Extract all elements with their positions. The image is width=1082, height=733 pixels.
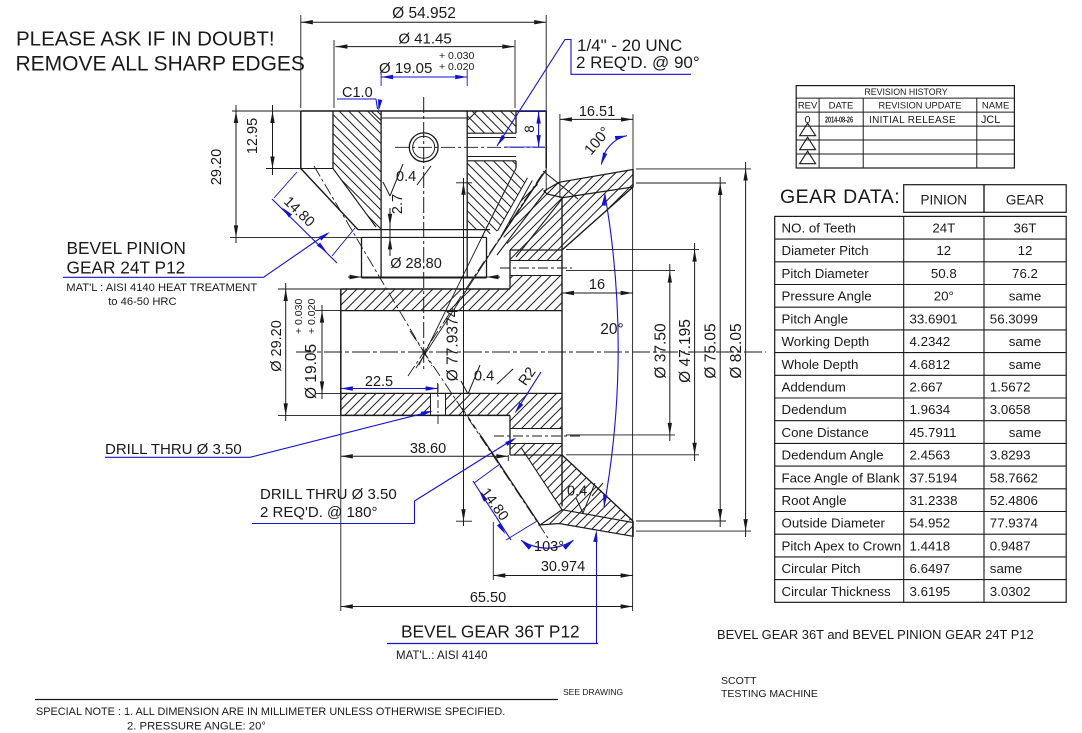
- dim 30.974 ext left: [492, 522, 494, 580]
- svg-text:76.2: 76.2: [1012, 266, 1038, 281]
- gear boss left face upper: [509, 250, 511, 289]
- svg-text:Ø 47.195: Ø 47.195: [677, 319, 694, 383]
- pinion outer edge left (OD 54.952): [300, 111, 302, 169]
- gear boss bottom face: [510, 454, 562, 456]
- svg-text:52.4806: 52.4806: [990, 493, 1038, 508]
- dim 14.80 pinion line blue: [272, 199, 337, 263]
- pinion outer edge right: [545, 111, 547, 168]
- svg-text:Cone Distance: Cone Distance: [782, 425, 869, 440]
- svg-text:20°: 20°: [600, 321, 623, 338]
- gear hub bottom wall hatch left: [341, 393, 431, 415]
- revision history table: [796, 86, 1014, 168]
- dim 38.60 ext right: [507, 455, 509, 461]
- svg-text:INITIAL RELEASE: INITIAL RELEASE: [869, 115, 956, 126]
- svg-text:Face Angle of Blank: Face Angle of Blank: [782, 470, 901, 485]
- svg-text:GEAR: GEAR: [1006, 193, 1045, 208]
- svg-text:REVISION HISTORY: REVISION HISTORY: [864, 87, 947, 97]
- gear bore wall bottom: [341, 392, 562, 394]
- dim right ext shared: [632, 186, 634, 611]
- pinion boss bottom line: [362, 277, 487, 279]
- svg-text:33.6901: 33.6901: [910, 311, 958, 326]
- dim 82.05 ext bottom: [636, 530, 751, 532]
- svg-text:1.5672: 1.5672: [990, 380, 1031, 395]
- gear back face upper: [632, 170, 634, 188]
- svg-text:TESTING MACHINE: TESTING MACHINE: [721, 688, 818, 700]
- svg-text:Dedendum: Dedendum: [782, 402, 847, 417]
- gear hub top wall hatch: [341, 289, 510, 311]
- svg-text:Ø 29.20: Ø 29.20: [269, 320, 285, 372]
- drill note 1 leader blue: [250, 412, 430, 458]
- svg-text:Ø 37.50: Ø 37.50: [653, 323, 670, 379]
- dim 12.95 line: [272, 105, 274, 175]
- svg-text:Pitch Diameter: Pitch Diameter: [782, 266, 870, 281]
- gear boss hatch lower below hole: [510, 444, 562, 456]
- svg-text:same: same: [1009, 334, 1042, 349]
- svg-text:2.7: 2.7: [390, 194, 406, 214]
- pinion cross hole circle outer: [409, 133, 438, 162]
- svg-text:same: same: [1009, 357, 1042, 372]
- svg-text:SEE DRAWING: SEE DRAWING: [563, 687, 623, 697]
- gear bolt hole lower line2: [510, 443, 562, 445]
- gear radial hole centerline: [437, 384, 439, 425]
- pinion bottom extension line: [230, 236, 362, 238]
- dim 12.95 ext: [266, 168, 301, 170]
- label BEVEL PINION leader blue: [264, 234, 328, 278]
- svg-text:0.9487: 0.9487: [990, 538, 1031, 553]
- svg-text:Circular Pitch: Circular Pitch: [782, 561, 861, 576]
- gear boss hatch lower above hole: [510, 393, 562, 428]
- gear tooth root line lower: [521, 448, 562, 510]
- dim 19.05 line blue: [381, 76, 467, 78]
- svg-text:DATE: DATE: [829, 101, 854, 112]
- gear tooth band upper outline: [544, 170, 633, 198]
- svg-text:Dedendum Angle: Dedendum Angle: [782, 448, 884, 463]
- gear tooth band hatch lower: [540, 510, 633, 537]
- svg-text:12: 12: [936, 243, 951, 258]
- svg-text:JCL: JCL: [981, 114, 1000, 126]
- dim 29.20 gear ext top: [278, 288, 341, 290]
- gear bolt hole upper line1: [510, 260, 562, 262]
- gear tooth band lower outline: [540, 510, 633, 537]
- svg-text:3.6195: 3.6195: [910, 584, 951, 599]
- thread note leader blue: [497, 40, 691, 147]
- svg-text:BEVEL GEAR 36T P12: BEVEL GEAR 36T P12: [401, 622, 580, 642]
- svg-text:56.3099: 56.3099: [990, 311, 1038, 326]
- gear bolt hole upper centerline: [500, 267, 572, 269]
- svg-text:2. PRESSURE ANGLE: 20°: 2. PRESSURE ANGLE: 20°: [127, 721, 266, 733]
- gear tooth root line upper: [516, 198, 563, 257]
- pinion boss right wall: [486, 237, 488, 277]
- pinion boss left wall: [361, 237, 363, 277]
- gear hub bottom wall hatch mid: [446, 393, 511, 415]
- mesh pitch line (dash-dot): [408, 173, 543, 376]
- dim 47.195 ext bottom: [566, 454, 699, 456]
- dim 19.05 ext left blue: [380, 70, 382, 86]
- dim 14.80 gear ext1: [474, 464, 500, 483]
- svg-text:REV: REV: [798, 101, 818, 112]
- svg-text:54.952: 54.952: [910, 516, 951, 531]
- pinion bottom face: [358, 229, 490, 231]
- dim 19.05 gear line: [321, 305, 323, 399]
- dim 41.45 ext left: [333, 40, 335, 108]
- svg-text:Ø 41.45: Ø 41.45: [398, 31, 451, 48]
- svg-text:NO. of Teeth: NO. of Teeth: [782, 221, 856, 236]
- svg-text:+ 0.030: + 0.030: [293, 299, 305, 334]
- dim 77.9374 line: [463, 178, 465, 526]
- svg-text:Diameter Pitch: Diameter Pitch: [782, 243, 869, 258]
- gear centerline (horizontal axis): [296, 351, 766, 353]
- svg-text:0.4: 0.4: [567, 484, 587, 500]
- gear tooth tip line lower: [481, 436, 540, 525]
- svg-text:3.8293: 3.8293: [990, 448, 1031, 463]
- svg-text:4.2342: 4.2342: [910, 334, 951, 349]
- pinion tooth tip continuation: [416, 240, 499, 368]
- dim 65.50 line: [341, 606, 633, 608]
- gear mesh hatch below boss: [526, 455, 562, 510]
- svg-text:0.4: 0.4: [396, 169, 416, 185]
- dim 16.51 line: [560, 118, 633, 120]
- svg-text:37.5194: 37.5194: [910, 470, 958, 485]
- dim 37.50 line: [669, 264, 671, 441]
- svg-text:50.8: 50.8: [931, 266, 957, 281]
- pinion tooth pitch line left (dash-dot): [314, 166, 432, 366]
- svg-text:24T: 24T: [932, 221, 955, 236]
- gear back face lower: [632, 521, 634, 536]
- pinion hub edge left (OD 41.45): [332, 111, 334, 169]
- dim 37.50 ext top: [566, 270, 675, 272]
- pinion mesh hatched wedge: [482, 168, 528, 237]
- svg-text:SCOTT: SCOTT: [721, 675, 757, 687]
- dim 29.20 gear line: [285, 283, 287, 421]
- svg-text:Pressure Angle: Pressure Angle: [782, 289, 872, 304]
- gear tooth band hatch upper: [544, 170, 633, 198]
- label BEVEL PINION underline blue: [63, 276, 264, 278]
- svg-text:8: 8: [522, 125, 537, 133]
- svg-text:1.9634: 1.9634: [910, 402, 951, 417]
- svg-text:2.667: 2.667: [910, 380, 943, 395]
- gear bolt hole lower centerline: [494, 435, 580, 437]
- svg-text:4.6812: 4.6812: [910, 357, 951, 372]
- dim 75.05 ext bottom: [636, 520, 726, 522]
- pinion hub hatched section left: [333, 111, 381, 230]
- gear boss hatch below hole: [510, 276, 562, 311]
- tapped hole minor line top: [467, 137, 516, 139]
- svg-text:REMOVE ALL SHARP EDGES: REMOVE ALL SHARP EDGES: [16, 53, 305, 76]
- dim 29.20 line: [235, 105, 237, 243]
- svg-text:2 REQ'D. @ 90°: 2 REQ'D. @ 90°: [576, 53, 700, 72]
- chamfer leader blue: [376, 99, 378, 109]
- pinion top face extension line: [232, 110, 301, 112]
- gear boss top face: [510, 249, 562, 251]
- svg-text:30.974: 30.974: [541, 559, 585, 575]
- pinion hub hatched section right upper: [467, 111, 516, 133]
- svg-text:Whole Depth: Whole Depth: [782, 357, 859, 372]
- svg-text:Addendum: Addendum: [782, 380, 846, 395]
- svg-text:6.6497: 6.6497: [910, 561, 951, 576]
- dim 54.952 line: [301, 21, 546, 23]
- tapped hole centerline (horizontal): [395, 146, 545, 148]
- tapped hole major line bottom: [467, 160, 516, 162]
- dim 30.974 line: [493, 575, 632, 577]
- svg-text:to 46-50 HRC: to 46-50 HRC: [108, 296, 176, 308]
- pinion hub edge right upper: [515, 111, 517, 133]
- surface finish 0.4 pinion bore mark: [383, 182, 390, 196]
- svg-text:3.0658: 3.0658: [990, 402, 1031, 417]
- drill note 2 leader blue: [415, 439, 515, 501]
- svg-text:Ø 77.9374: Ø 77.9374: [445, 308, 462, 381]
- dim 8 line blue: [538, 112, 540, 148]
- mesh flank line 2: [502, 181, 532, 235]
- pinion bore chamfer left C1.0: [371, 111, 381, 121]
- svg-text:DRILL THRU Ø 3.50: DRILL THRU Ø 3.50: [105, 441, 242, 458]
- gear radial hole wall right: [445, 393, 447, 415]
- gear back cone lower: [562, 455, 633, 521]
- svg-text:same: same: [1009, 425, 1042, 440]
- svg-text:20°: 20°: [934, 289, 954, 304]
- svg-text:Pitch Angle: Pitch Angle: [782, 311, 849, 326]
- svg-text:58.7662: 58.7662: [990, 470, 1038, 485]
- svg-text:16.51: 16.51: [579, 104, 615, 120]
- svg-text:12: 12: [1018, 243, 1033, 258]
- svg-text:36T: 36T: [1014, 221, 1037, 236]
- pinion cross hole circle inner (thread): [413, 136, 435, 158]
- svg-text:16: 16: [589, 277, 605, 293]
- pinion back cone edge right: [543, 171, 578, 199]
- svg-text:45.7911: 45.7911: [910, 425, 957, 440]
- dim 37.50 ext bottom: [566, 434, 675, 436]
- svg-text:Outside Diameter: Outside Diameter: [782, 516, 886, 531]
- gear tooth tip line upper: [497, 191, 546, 256]
- svg-text:MAT'L.: AISI 4140: MAT'L.: AISI 4140: [396, 650, 487, 662]
- dim 2.7 line: [389, 208, 391, 256]
- dim 47.195 line: [694, 243, 696, 461]
- dim 38.60 ext left: [340, 415, 342, 461]
- dim 28.80 line: [348, 276, 500, 278]
- mesh flank line 1: [498, 178, 528, 231]
- pinion bore wall left: [380, 111, 382, 278]
- svg-text:Ø 75.05: Ø 75.05: [703, 323, 720, 378]
- svg-text:2.4563: 2.4563: [910, 448, 951, 463]
- svg-text:12.95: 12.95: [245, 118, 261, 154]
- svg-text:+ 0.020: + 0.020: [306, 299, 318, 334]
- surface finish 0.4 gear tooth mark: [576, 498, 583, 513]
- pinion boss top line: [362, 236, 487, 238]
- svg-text:1.4418: 1.4418: [910, 538, 951, 553]
- chamfer note underline blue: [337, 98, 376, 100]
- drill note 2 shelf blue: [252, 523, 415, 525]
- drill note 1 shelf blue: [105, 456, 250, 458]
- gear bottom pitch line (dash-dot): [410, 331, 548, 538]
- svg-text:GEAR DATA:: GEAR DATA:: [780, 186, 900, 208]
- svg-text:2 REQ'D. @ 180°: 2 REQ'D. @ 180°: [260, 504, 377, 521]
- gear hub bottom edge: [341, 414, 510, 416]
- gear rim hatch lower cone: [562, 455, 633, 521]
- pinion tooth tip line right: [499, 170, 546, 240]
- pinion bore chamfer bottom edge: [381, 117, 467, 119]
- gear mesh hatch above boss: [502, 181, 563, 251]
- tapped hole minor line bottom: [467, 156, 516, 158]
- svg-text:103°: 103°: [534, 539, 564, 555]
- dim 16.51 ext right: [632, 114, 634, 169]
- pinion tooth root continuation: [419, 237, 482, 365]
- svg-text:Ø 19.05: Ø 19.05: [303, 344, 320, 399]
- svg-text:22.5: 22.5: [365, 374, 393, 390]
- dim 65.50 ext left: [340, 461, 342, 611]
- dim 14.80 pinion ext1: [274, 172, 297, 198]
- pinion hub hatched section right lower: [467, 161, 516, 230]
- gear bore wall top: [341, 310, 562, 312]
- svg-text:Circular Thickness: Circular Thickness: [782, 584, 891, 599]
- svg-text:65.50: 65.50: [470, 590, 506, 606]
- gear back cone upper: [562, 187, 633, 250]
- svg-text:BEVEL PINION: BEVEL PINION: [67, 238, 186, 258]
- dim 41.45 ext right: [514, 40, 516, 108]
- gear bolt hole lower line1: [510, 428, 562, 430]
- svg-text:GEAR 24T P12: GEAR 24T P12: [67, 258, 186, 278]
- svg-text:PLEASE ASK IF IN DOUBT!: PLEASE ASK IF IN DOUBT!: [16, 28, 275, 51]
- svg-text:3.0302: 3.0302: [990, 584, 1031, 599]
- gear radial hole wall left: [430, 393, 432, 415]
- svg-text:2014-08-26: 2014-08-26: [825, 114, 853, 124]
- svg-text:0.4: 0.4: [474, 369, 494, 385]
- svg-text:31.2338: 31.2338: [910, 493, 958, 508]
- dim 19.05 gear ext top: [315, 310, 341, 312]
- gear bolt hole upper line2: [510, 275, 562, 277]
- surface finish 0.4 gear bore mark: [461, 381, 468, 394]
- fillet note R2 leader blue: [517, 372, 541, 411]
- svg-text:Root Angle: Root Angle: [782, 493, 847, 508]
- pinion shoulder line left: [266, 168, 333, 170]
- pinion hub edge right lower: [515, 161, 517, 168]
- drill note 2 vertical blue: [414, 501, 416, 524]
- svg-text:Pitch Apex to Crown: Pitch Apex to Crown: [782, 538, 902, 553]
- pinion top face: [301, 110, 546, 112]
- pinion tooth root line right: [482, 168, 516, 237]
- dim 47.195 ext top: [566, 249, 699, 251]
- pinion tooth root line left: [333, 169, 376, 228]
- pinion bore wall right: [466, 111, 468, 278]
- svg-text:Ø 54.952: Ø 54.952: [392, 5, 456, 22]
- gear boss hatch above hole: [510, 250, 562, 261]
- dim 82.05 line: [745, 162, 747, 537]
- dim 19.05 gear ext bottom: [315, 392, 341, 394]
- svg-text:29.20: 29.20: [209, 149, 225, 185]
- svg-text:REVISION UPDATE: REVISION UPDATE: [878, 101, 961, 111]
- svg-text:SPECIAL NOTE : 1. ALL DIMENSI: SPECIAL NOTE : 1. ALL DIMENSION ARE IN M…: [36, 706, 505, 718]
- dim 14.80 pinion ext2: [332, 228, 355, 256]
- svg-text:DRILL THRU Ø 3.50: DRILL THRU Ø 3.50: [260, 486, 397, 503]
- svg-text:Ø 28.80: Ø 28.80: [390, 256, 442, 272]
- svg-text:MAT'L : AISI 4140 HEAT TREATME: MAT'L : AISI 4140 HEAT TREATMENT: [66, 282, 257, 294]
- svg-text:38.60: 38.60: [410, 441, 446, 457]
- dim 38.60 line: [341, 455, 509, 457]
- label BEVEL GEAR underline blue: [387, 643, 598, 645]
- angle 103 arc blue: [521, 540, 574, 548]
- svg-text:BEVEL GEAR 36T and BEVEL PINIO: BEVEL GEAR 36T and BEVEL PINION GEAR 24T…: [717, 627, 1034, 642]
- dim 75.05 line: [719, 177, 721, 527]
- gear left face: [340, 289, 342, 415]
- gear rim hatch upper cone: [562, 187, 633, 250]
- dim 19.05 ext right blue: [466, 70, 468, 86]
- dim 82.05 ext top: [636, 168, 751, 170]
- gear boss and rim right face: [561, 198, 563, 507]
- dim 54.952 ext right: [545, 15, 547, 191]
- gear boss left face lower: [509, 415, 511, 455]
- dim 29.20 gear ext bottom: [278, 414, 341, 416]
- dim 14.80 gear ext2: [506, 521, 537, 540]
- svg-text:77.9374: 77.9374: [990, 516, 1038, 531]
- dim 77.9374 ticks: [456, 182, 472, 184]
- svg-text:PINION: PINION: [921, 193, 968, 208]
- gear hub top edge: [341, 288, 510, 290]
- bottom rule line: [35, 699, 558, 701]
- pinion centerline (vertical axis): [423, 97, 425, 372]
- dim 75.05 ext top: [636, 182, 726, 184]
- dim 22.5 line blue: [341, 388, 438, 390]
- svg-text:NAME: NAME: [982, 101, 1009, 112]
- label BEVEL GEAR leader blue: [596, 533, 598, 644]
- svg-text:Ø 19.05: Ø 19.05: [379, 60, 432, 77]
- dim 16.51 ext left: [559, 114, 561, 198]
- dim 41.45 line: [335, 46, 514, 48]
- pinion bore chamfer right: [467, 111, 477, 121]
- svg-text:same: same: [990, 561, 1023, 576]
- dim 54.952 ext left: [300, 15, 302, 108]
- dim 22.5 ext blue: [437, 383, 439, 396]
- svg-text:+ 0.020: + 0.020: [439, 61, 474, 73]
- angle 20 long arc blue: [604, 194, 618, 507]
- tapped hole major line top: [467, 132, 516, 134]
- svg-text:Working Depth: Working Depth: [782, 334, 870, 349]
- dim 16 line: [562, 292, 633, 294]
- angle 100 arc blue: [601, 136, 627, 165]
- svg-text:same: same: [1009, 289, 1042, 304]
- pinion tooth tip line left: [301, 169, 358, 230]
- svg-text:Ø 82.05: Ø 82.05: [728, 323, 745, 378]
- dim 14.80 gear line blue: [473, 481, 511, 540]
